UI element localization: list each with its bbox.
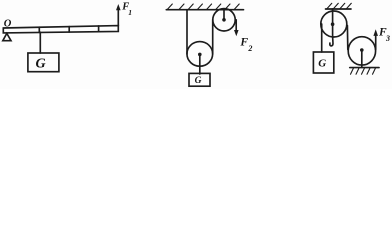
wire: rope from top pulley to bottom pulley	[346, 26, 348, 50]
force arrow F3	[375, 36, 377, 50]
tick mark 1 on beam	[38, 27, 40, 32]
svg-text:G: G	[36, 56, 46, 71]
wire: rope from top pulley to weight G3	[321, 24, 323, 52]
fixed pulley top (right)	[321, 11, 347, 37]
movable pulley (middle)	[187, 42, 213, 67]
wire: axle link to weight G2	[199, 54, 201, 74]
bottom pulley axle dot (right)	[360, 48, 364, 52]
ceiling hatching (middle)	[168, 4, 240, 9]
weight box G1	[28, 53, 59, 72]
force arrow F2	[235, 20, 237, 31]
ceiling (right diagram)	[326, 8, 352, 10]
hook below top pulley (right)	[330, 37, 333, 46]
weight box G3	[313, 52, 333, 73]
fixed pulley axle dot (middle)	[222, 18, 226, 22]
force arrow F1	[117, 9, 119, 26]
movable pulley axle dot (middle)	[198, 53, 202, 57]
ground line (right)	[350, 67, 379, 69]
svg-text:2: 2	[247, 44, 252, 53]
wire: rope from beam to weight G1	[39, 32, 41, 53]
svg-text:1: 1	[128, 8, 132, 17]
ground hatching (right)	[351, 68, 376, 74]
svg-text:G: G	[195, 76, 202, 86]
ceiling hatching (right)	[327, 3, 351, 8]
wire: rope between movable and fixed pulley	[212, 20, 214, 54]
fixed pulley (middle)	[213, 9, 235, 31]
bottom pulley (right)	[348, 37, 375, 65]
tick mark 2 on beam	[68, 27, 70, 32]
wire: anchor link from bottom pulley to ground	[361, 50, 363, 67]
wire: left rope from ceiling to movable pulley	[186, 10, 188, 54]
lever bar (beam)	[3, 26, 118, 33]
ceiling (middle diagram)	[166, 9, 243, 11]
svg-text:O: O	[4, 18, 12, 29]
fulcrum triangle	[3, 33, 11, 40]
svg-text:F: F	[239, 36, 248, 48]
top pulley axle dot (right)	[331, 22, 335, 26]
tick mark 3 on beam	[98, 26, 100, 32]
svg-text:3: 3	[385, 34, 390, 43]
weight box G2	[189, 73, 210, 86]
svg-text:G: G	[318, 58, 326, 70]
wire: suspension of fixed pulley (middle)	[223, 10, 225, 20]
wire: suspension of top pulley through centre (right)	[332, 9, 334, 37]
